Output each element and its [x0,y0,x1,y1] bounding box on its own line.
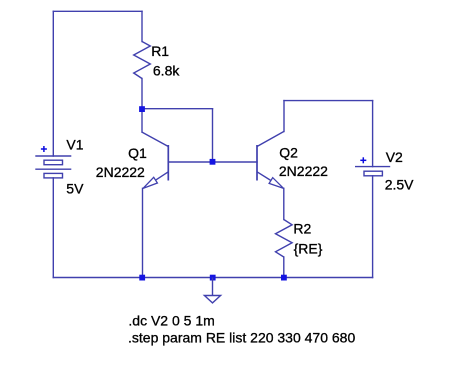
svg-text:2.5V: 2.5V [385,177,414,193]
svg-text:.step param RE list 220 330 47: .step param RE list 220 330 470 680 [128,330,355,346]
wire node A to corner [142,108,213,110]
junction node E (ground / bottom rail) [210,275,216,281]
svg-text:5V: 5V [66,180,84,196]
svg-text:Q2: Q2 [279,144,298,160]
wire left lower (V1 to bottom rail) [52,178,54,278]
svg-text:{RE}: {RE} [294,240,323,256]
svg-text:V2: V2 [386,149,403,165]
junction node D (R2 / bottom rail) [281,275,287,281]
svg-text:Q1: Q1 [128,145,147,161]
voltage source V1 (battery) [35,156,71,178]
V2 plus mark [360,157,366,163]
transistor Q2 (2N2222) [257,132,284,189]
svg-text:V1: V1 [66,136,83,152]
voltage source V2 (battery) [355,167,390,176]
transistor Q1 (2N2222, mirrored) [142,132,168,188]
wire R1 bottom lead to node A [141,79,143,110]
resistor R1 [134,42,151,79]
wire bottom rail [53,277,372,279]
junction node A (R1 / Q1 collector) [139,106,145,112]
svg-text:2N2222: 2N2222 [96,164,145,180]
wire right upper (V2 to top) [372,101,374,167]
junction node C (Q1 emitter / bottom rail) [139,275,145,281]
svg-text:R2: R2 [293,221,311,237]
wire left upper (V+ to V1) [52,11,54,156]
wire Q2 collector lead [283,101,285,132]
wire right lower (bottom rail to V2) [372,176,374,278]
ground [204,278,220,303]
svg-text:6.8k: 6.8k [153,63,180,79]
wire Q1 collector lead [141,109,143,132]
wire base Q1 to Q2 [168,161,257,163]
svg-text:2N2222: 2N2222 [279,163,328,179]
wire top right rail [284,100,373,102]
resistor R2 [276,220,293,258]
V1 plus mark [41,146,47,152]
wire R1 top lead [141,11,143,41]
wire Q1 emitter lead [142,188,144,277]
wire top rail [53,10,142,12]
wire corner down to node B [212,109,214,162]
junction node B (base wire) [210,159,216,165]
wire Q2 emitter lead [283,188,285,219]
svg-text:R1: R1 [151,43,169,59]
svg-text:.dc V2 0 5 1m: .dc V2 0 5 1m [128,313,214,329]
wire R2 bottom lead [283,257,285,278]
